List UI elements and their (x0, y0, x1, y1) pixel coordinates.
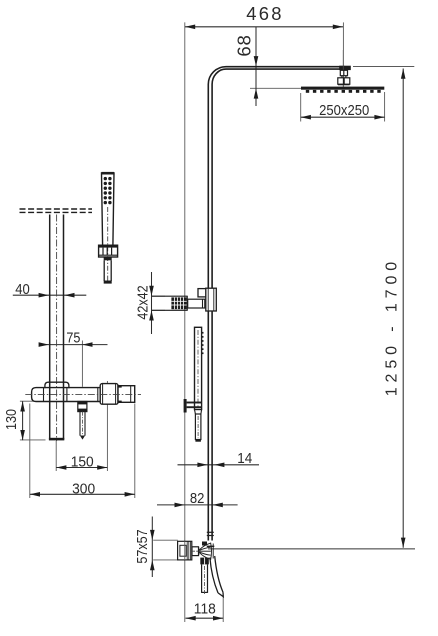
svg-text:75: 75 (66, 329, 80, 346)
svg-text:118: 118 (194, 601, 216, 618)
svg-text:1250 - 1700: 1250 - 1700 (383, 257, 400, 396)
svg-text:82: 82 (190, 489, 205, 506)
svg-text:14: 14 (237, 450, 252, 467)
svg-text:40: 40 (15, 280, 30, 297)
svg-text:150: 150 (71, 454, 94, 471)
svg-text:130: 130 (2, 409, 19, 430)
svg-text:250x250: 250x250 (319, 101, 369, 118)
svg-text:42x42: 42x42 (133, 285, 150, 319)
svg-text:300: 300 (72, 481, 95, 498)
svg-text:57x57: 57x57 (133, 529, 150, 563)
svg-text:68: 68 (234, 34, 255, 56)
svg-text:468: 468 (246, 3, 284, 24)
